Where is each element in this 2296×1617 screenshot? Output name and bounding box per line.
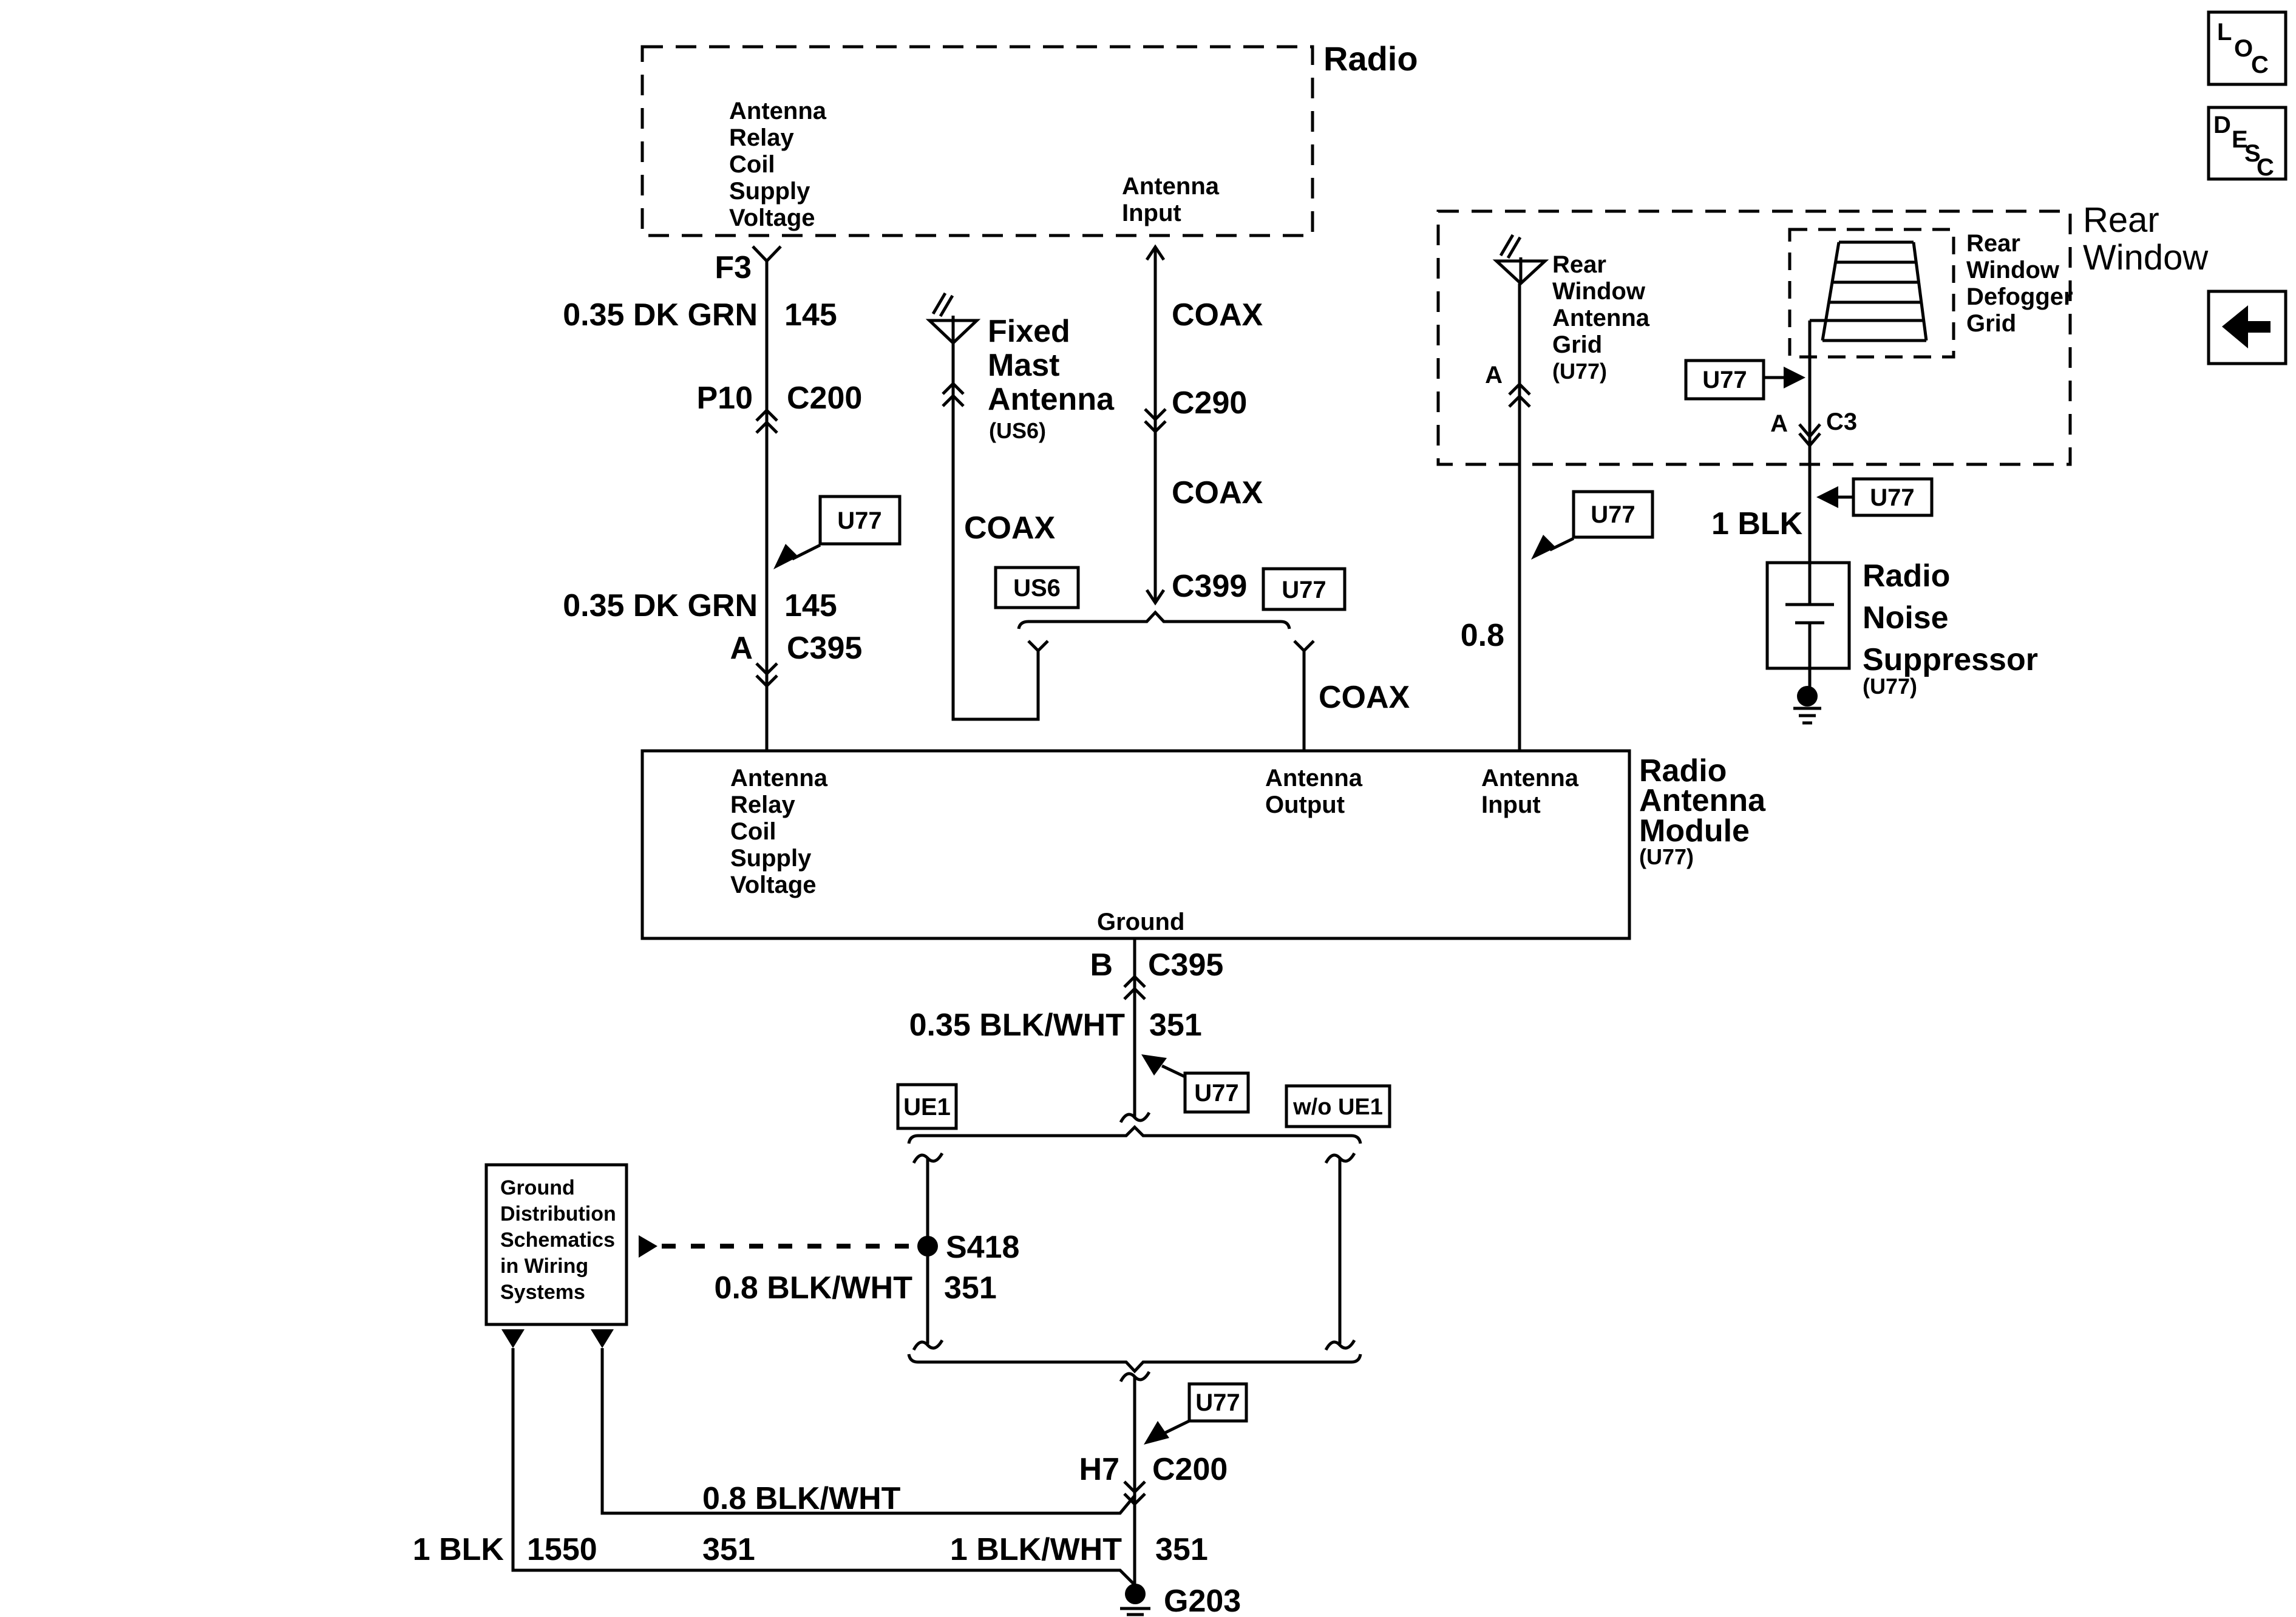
svg-text:0.35 DK GRN: 0.35 DK GRN <box>563 297 758 333</box>
svg-text:US6: US6 <box>1013 575 1061 602</box>
svg-text:C200: C200 <box>787 381 862 416</box>
module pin label: Antenna Output <box>1265 765 1363 818</box>
module pin label: Antenna Input <box>1481 765 1579 818</box>
radio pin label: Antenna Input <box>1122 173 1220 226</box>
U77 option tag (suppressor wire) <box>1853 479 1932 515</box>
w/o UE1 option tag <box>1286 1086 1390 1127</box>
svg-text:Distribution: Distribution <box>500 1202 616 1225</box>
radio pin label: Antenna Relay Coil Supply Voltage <box>729 98 827 231</box>
svg-text:Antenna: Antenna <box>729 98 827 124</box>
svg-text:0.8 BLK/WHT: 0.8 BLK/WHT <box>715 1270 913 1306</box>
svg-text:C399: C399 <box>1172 569 1247 604</box>
svg-text:C395: C395 <box>1148 947 1223 983</box>
svg-text:P10: P10 <box>696 381 753 416</box>
radio noise suppressor (capacitor) <box>1767 563 1849 686</box>
wire: 0.35 DK GRN 145 from radio to module <box>766 261 769 751</box>
wire: COAX radio antenna input <box>1154 247 1157 603</box>
svg-text:(U77): (U77) <box>1863 674 1917 699</box>
connector C290 (double chevron down) <box>1145 409 1166 432</box>
svg-text:C395: C395 <box>787 631 862 666</box>
svg-text:145: 145 <box>784 297 837 333</box>
svg-text:UE1: UE1 <box>903 1094 951 1120</box>
C399 splice brace <box>1019 612 1289 629</box>
svg-text:Supply: Supply <box>729 178 810 205</box>
svg-text:Relay: Relay <box>729 124 794 151</box>
svg-text:Relay: Relay <box>730 792 795 818</box>
rear window defogger grid (dashed box) <box>1790 229 1954 357</box>
svg-text:A: A <box>730 631 753 666</box>
connector C399 male arrow <box>1147 590 1164 603</box>
break symbol (below bottom brace) <box>1121 1372 1149 1381</box>
connector C200 (double chevron up) <box>756 410 777 433</box>
svg-text:Grid: Grid <box>1552 331 1602 358</box>
svg-text:Antenna: Antenna <box>988 382 1115 417</box>
svg-text:COAX: COAX <box>1172 475 1263 510</box>
svg-text:Window: Window <box>2083 238 2209 277</box>
svg-text:351: 351 <box>702 1532 755 1567</box>
rear window antenna grid symbol <box>1496 235 1545 283</box>
svg-text:Rear: Rear <box>1966 230 2020 257</box>
dashed leader to S418 <box>662 1244 918 1249</box>
svg-text:Antenna: Antenna <box>1481 765 1579 792</box>
svg-text:Grid: Grid <box>1966 310 2016 337</box>
wire: w/o UE1 branch <box>1339 1158 1342 1344</box>
label: Rear Window (title) <box>2083 200 2209 277</box>
ground G203 <box>1120 1584 1150 1615</box>
svg-text:0.35 BLK/WHT: 0.35 BLK/WHT <box>909 1008 1126 1043</box>
svg-text:COAX: COAX <box>1319 680 1410 715</box>
svg-text:Input: Input <box>1122 200 1181 226</box>
off-page triangle (0.8 BLK/WHT 351) <box>591 1329 614 1348</box>
svg-text:(U77): (U77) <box>1639 844 1694 869</box>
connector C200 H7 (double chevron down) <box>1124 1482 1145 1504</box>
svg-text:COAX: COAX <box>1172 297 1263 333</box>
svg-text:145: 145 <box>784 588 837 623</box>
fixed mast antenna symbol <box>929 293 977 343</box>
svg-text:U77: U77 <box>1282 577 1326 603</box>
svg-text:O: O <box>2234 35 2253 62</box>
module pin label: Antenna Relay Coil Supply Voltage <box>730 765 828 898</box>
svg-text:(US6): (US6) <box>989 418 1046 443</box>
svg-text:Rear: Rear <box>2083 200 2159 240</box>
svg-text:Output: Output <box>1265 792 1345 818</box>
U77 option tag (rear antenna wire) <box>1574 492 1652 537</box>
radio (dashed outline box) <box>642 47 1313 236</box>
svg-text:Rear: Rear <box>1552 251 1606 278</box>
svg-text:H7: H7 <box>1079 1452 1119 1487</box>
break symbol (w/o UE1 branch bottom) <box>1326 1340 1354 1350</box>
svg-text:U77: U77 <box>1195 1389 1240 1416</box>
svg-text:G203: G203 <box>1164 1584 1241 1617</box>
svg-text:S418: S418 <box>946 1230 1019 1265</box>
svg-text:Voltage: Voltage <box>729 205 815 231</box>
break symbol (UE1 branch top) <box>914 1153 942 1163</box>
svg-text:Window: Window <box>1966 257 2060 283</box>
leader arrow from U77 tag to defogger wire <box>1764 367 1805 388</box>
LOC legend box <box>2209 12 2286 84</box>
ground (suppressor) <box>1793 686 1821 723</box>
svg-text:(U77): (U77) <box>1552 359 1607 384</box>
svg-text:Ground: Ground <box>500 1176 575 1199</box>
label: Radio Noise Suppressor (U77) <box>1863 558 2038 699</box>
svg-text:1550: 1550 <box>527 1532 597 1567</box>
svg-text:Antenna: Antenna <box>1122 173 1220 200</box>
leader arrow from U77 tag to 1 BLK wire <box>1816 486 1853 508</box>
svg-text:A: A <box>1485 362 1503 388</box>
reference arrow <box>639 1235 657 1258</box>
label: Radio Antenna Module (U77) <box>1639 753 1766 869</box>
svg-text:C290: C290 <box>1172 385 1247 421</box>
svg-text:Suppressor: Suppressor <box>1863 642 2038 677</box>
rear window (dashed outline box) <box>1438 211 2070 464</box>
svg-text:Window: Window <box>1552 278 1646 305</box>
svg-text:F3: F3 <box>715 250 752 285</box>
U77 option tag (BLK/WHT wire) <box>1185 1073 1248 1112</box>
connector on rear antenna lead (double chevron up) <box>1509 384 1530 407</box>
U77 option tag (defogger feed) <box>1686 361 1764 399</box>
break symbol (UE1 branch bottom) <box>914 1340 942 1350</box>
svg-text:Antenna: Antenna <box>730 765 828 792</box>
svg-text:C3: C3 <box>1826 408 1857 435</box>
radio antenna module (box) <box>642 751 1629 938</box>
svg-text:351: 351 <box>1155 1532 1208 1567</box>
option brace (bottom) <box>909 1354 1360 1371</box>
svg-text:Fixed: Fixed <box>988 314 1070 349</box>
svg-text:0.8 BLK/WHT: 0.8 BLK/WHT <box>702 1481 901 1516</box>
splice S418 <box>917 1236 938 1256</box>
U77 option tag (C399) <box>1263 569 1345 609</box>
svg-text:Input: Input <box>1481 792 1541 818</box>
svg-text:U77: U77 <box>1591 501 1635 528</box>
U77 option tag (DK GRN wire) <box>820 497 900 544</box>
defogger grid element symbol <box>1810 242 1926 341</box>
svg-text:Noise: Noise <box>1863 600 1949 636</box>
svg-text:Systems: Systems <box>500 1281 585 1304</box>
svg-text:Radio: Radio <box>1323 39 1418 78</box>
back-arrow legend box <box>2209 291 2286 364</box>
label: Ground Distribution Schematics in Wiring Systems <box>500 1176 616 1304</box>
connector C3 (double chevron down) <box>1799 424 1820 446</box>
svg-text:351: 351 <box>1149 1008 1202 1043</box>
US6 option tag <box>996 568 1078 608</box>
wire: rear antenna 0.8 to module antenna input <box>1518 283 1521 751</box>
svg-text:COAX: COAX <box>964 510 1056 546</box>
break symbol (w/o UE1 branch top) <box>1326 1153 1354 1163</box>
connector on mast antenna lead (double chevron up) <box>943 384 963 406</box>
svg-text:Schematics: Schematics <box>500 1229 615 1252</box>
wire: module ground pin B <box>1133 938 1136 1117</box>
svg-text:Coil: Coil <box>730 818 776 845</box>
wire: 0.8 BLK/WHT 351 to H7 <box>602 1348 1135 1513</box>
svg-text:Defogger: Defogger <box>1966 283 2073 310</box>
svg-text:U77: U77 <box>1870 484 1914 511</box>
leader arrow from U77 tag to wire <box>1144 1421 1189 1445</box>
svg-text:C200: C200 <box>1152 1452 1228 1487</box>
U77 option tag (H7 wire) <box>1189 1384 1246 1421</box>
svg-text:U77: U77 <box>1702 367 1747 393</box>
svg-text:1 BLK: 1 BLK <box>1711 506 1803 541</box>
svg-text:Coil: Coil <box>729 151 775 178</box>
svg-text:U77: U77 <box>1194 1080 1238 1107</box>
option brace (top) <box>909 1127 1360 1144</box>
svg-text:in Wiring: in Wiring <box>500 1255 588 1278</box>
wire: defogger feed 1 BLK <box>1809 320 1812 563</box>
svg-text:351: 351 <box>944 1270 997 1306</box>
leader arrow from U77 tag to rear antenna wire <box>1531 535 1574 560</box>
svg-text:Antenna: Antenna <box>1265 765 1363 792</box>
svg-text:A: A <box>1770 410 1788 437</box>
wire: UE1 branch <box>926 1158 929 1344</box>
svg-text:L: L <box>2217 19 2232 46</box>
svg-text:Antenna: Antenna <box>1552 305 1650 331</box>
wire: COAX to module antenna output <box>1303 651 1306 751</box>
svg-text:C: C <box>2257 154 2274 181</box>
connector female Y at U77 branch of C399 <box>1294 641 1314 651</box>
label: Rear Window Antenna Grid (U77) <box>1552 251 1650 384</box>
connector arrow into radio Antenna Input <box>1147 247 1164 260</box>
leader arrow from U77 tag to wire <box>773 544 820 569</box>
svg-text:C: C <box>2251 52 2269 78</box>
svg-text:U77: U77 <box>837 507 881 534</box>
svg-text:B: B <box>1090 947 1113 983</box>
svg-text:Voltage: Voltage <box>730 872 817 898</box>
break symbol (ground wire end) <box>1121 1113 1149 1122</box>
wire: 1 BLK 1550 to G203 <box>513 1348 1135 1585</box>
leader arrow from U77 tag up to wire <box>1141 1054 1185 1077</box>
connector C395 B (double chevron up) <box>1124 977 1145 999</box>
svg-text:D: D <box>2213 112 2231 138</box>
svg-text:Module: Module <box>1639 813 1750 849</box>
svg-text:1 BLK: 1 BLK <box>413 1532 504 1567</box>
svg-text:w/o UE1: w/o UE1 <box>1292 1094 1383 1120</box>
svg-text:Mast: Mast <box>988 348 1059 383</box>
ground distribution reference box <box>486 1165 627 1324</box>
svg-text:Ground: Ground <box>1097 909 1184 935</box>
connector F3 at radio (female Y) <box>753 246 781 261</box>
DESC legend box <box>2209 107 2286 181</box>
connector female Y at US6 branch of C399 <box>1028 641 1048 651</box>
svg-text:Radio: Radio <box>1863 558 1950 594</box>
svg-text:Supply: Supply <box>730 845 812 872</box>
label: Rear Window Defogger Grid <box>1966 230 2073 337</box>
connector C395 A (double chevron down) <box>756 663 777 686</box>
svg-text:0.8: 0.8 <box>1461 618 1504 653</box>
wire: mast antenna coax lead <box>953 343 1038 719</box>
label: Fixed Mast Antenna (US6) <box>988 314 1115 443</box>
wire: ground lead to G203 <box>1133 1377 1136 1585</box>
svg-text:1 BLK/WHT: 1 BLK/WHT <box>950 1532 1122 1567</box>
svg-text:0.35 DK GRN: 0.35 DK GRN <box>563 588 758 623</box>
UE1 option tag <box>898 1085 956 1128</box>
off-page triangle (1 BLK 1550) <box>501 1329 525 1348</box>
